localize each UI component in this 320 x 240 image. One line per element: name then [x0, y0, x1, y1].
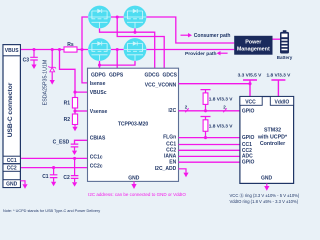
pin CC2 [3, 164, 20, 172]
svg-text:I2C_ADD: I2C_ADD [155, 166, 177, 172]
node Power Management box [234, 36, 272, 55]
wire Isense tap [82, 50, 88, 83]
wire CC2 line [20, 167, 87, 169]
ground (C2) [72, 182, 77, 186]
wire I2C bus [179, 110, 240, 112]
svg-text:VBUSc: VBUSc [90, 90, 107, 96]
wire VBUS main rail [20, 49, 100, 51]
svg-text:CBIAS: CBIAS [90, 136, 106, 142]
wire IANA to ADC [179, 155, 240, 157]
capacitor C1 [42, 168, 57, 182]
pin VddIO (STM32) [270, 97, 293, 106]
svg-text:TCPP03-M20: TCPP03-M20 [118, 121, 149, 127]
transistor Q2 (consumer FET right) [124, 6, 147, 29]
wire GND stub (STM32) [266, 183, 268, 186]
svg-text:GPIO: GPIO [242, 108, 255, 114]
svg-text:CC1c: CC1c [90, 154, 103, 160]
wire VBUSc sense path [60, 50, 88, 93]
svg-text:1.8 V/3.3 V: 1.8 V/3.3 V [209, 97, 234, 103]
svg-text:GND: GND [6, 182, 18, 188]
wire PM to battery [273, 38, 281, 40]
power rail 3.3V/5.5V [238, 73, 263, 97]
transistor Q1 (consumer FET left) [88, 6, 111, 29]
svg-text:Management: Management [237, 46, 270, 52]
svg-text:Isense: Isense [90, 81, 106, 87]
svg-text:GND: GND [261, 176, 273, 182]
svg-text:1.8 V/3.3 V: 1.8 V/3.3 V [209, 124, 234, 130]
pin VCC (STM32) [240, 97, 262, 106]
capacitor C_ESD [53, 140, 79, 151]
node dot I2C pullup [204, 109, 207, 112]
ground (TCPP03 GND) [131, 184, 136, 189]
svg-text:Rs: Rs [67, 42, 74, 48]
svg-text:C2: C2 [63, 175, 70, 181]
capacitor C3 [23, 50, 38, 65]
node Provider path annotation [185, 51, 228, 57]
svg-text:Vsense: Vsense [90, 109, 108, 115]
op-amp U2 STM32 box [240, 97, 294, 184]
svg-text:I2C address: can be connected: I2C address: can be connected to GND or … [88, 192, 186, 197]
svg-text:CC2c: CC2c [90, 164, 103, 170]
wire bottom row interconnect [105, 49, 130, 51]
svg-text:Power: Power [245, 40, 262, 46]
svg-text:Battery: Battery [277, 55, 293, 60]
wire provider source to GDPS [116, 50, 118, 69]
pin VBUS [3, 45, 20, 56]
ESD diode ESDA25P35-1U1M [42, 50, 56, 106]
svg-text:ESDA25P35-1U1M: ESDA25P35-1U1M [42, 60, 48, 106]
resistor Rs [64, 42, 77, 52]
resistor pull-up FLGn [201, 117, 234, 138]
svg-text:GPIO: GPIO [242, 160, 255, 166]
svg-text:R1: R1 [64, 101, 71, 107]
node bus width marker left [185, 105, 189, 113]
wire riser to consumer FET row [82, 17, 100, 50]
svg-text:VBUS: VBUS [5, 48, 20, 54]
wire provider output path [140, 49, 234, 51]
svg-text:STM32: STM32 [264, 128, 281, 134]
svg-text:EN: EN [169, 159, 176, 165]
node bus width marker right [223, 105, 226, 113]
svg-text:VddIO ring (1.8 V ±5% - 3.3 V: VddIO ring (1.8 V ±5% - 3.3 V ±10%) [230, 199, 299, 204]
USB-C connector [3, 45, 20, 188]
svg-text:FLGn: FLGn [163, 135, 176, 141]
wire Vsense [75, 110, 88, 112]
ground (I2C_ADD) [183, 173, 188, 178]
node Battery icon [277, 30, 293, 60]
wire CC1 line [20, 157, 87, 159]
ground (USB-C GND) [22, 184, 27, 189]
svg-text:Provider path: Provider path [185, 51, 217, 57]
svg-text:Note: * UCPD stands for USB Ty: Note: * UCPD stands for USB Type-C and P… [3, 209, 100, 213]
svg-text:C1: C1 [42, 174, 49, 180]
wire top row interconnect [105, 16, 130, 18]
svg-text:VCC Ⓢ ring (3.3 V ±10% - 5 V ±: VCC Ⓢ ring (3.3 V ±10% - 5 V ±10%) [230, 192, 300, 199]
svg-text:I2C: I2C [168, 108, 176, 114]
svg-text:VCC: VCC [245, 99, 256, 105]
node dot VCC rail [248, 82, 251, 85]
resistor R1 [64, 92, 78, 111]
svg-text:USB-C connector: USB-C connector [7, 82, 14, 137]
svg-text:CC1: CC1 [7, 158, 17, 164]
wire consumer source to GDCS [117, 17, 164, 68]
svg-text:CC2: CC2 [7, 166, 17, 172]
svg-text:GND: GND [128, 176, 140, 182]
wire CC1 to STM32 [179, 144, 240, 146]
svg-text:C3: C3 [23, 57, 30, 63]
wire GND stub (TCPP03) [133, 181, 135, 184]
wire consumer output path [140, 17, 234, 43]
op-amp U1 TCPP03-M20 box [88, 68, 179, 181]
ground (ESD diode) [50, 80, 55, 85]
svg-text:C_ESD: C_ESD [53, 140, 70, 146]
wire GND stub (USB-C) [20, 181, 25, 184]
svg-text:Consumer path: Consumer path [194, 33, 231, 39]
svg-text:with UCPD*: with UCPD* [257, 134, 288, 140]
node Consumer path annotation [181, 33, 231, 39]
wire consumer gates to GDCG [100, 26, 155, 68]
pin CC1 [3, 156, 20, 164]
svg-text:GPIO: GPIO [242, 135, 255, 141]
pin GND (USB-C) [3, 180, 20, 188]
node junction dots left section [32, 15, 136, 169]
power rail 1.8V/3.3V [267, 73, 292, 97]
wire CBIAS [75, 140, 88, 143]
wire EN to GPIO [179, 161, 240, 163]
svg-text:VddIO: VddIO [275, 99, 290, 105]
transistor Q3 (provider FET left) [88, 38, 111, 61]
ground (R2) [72, 127, 77, 131]
svg-text:GDCG: GDCG [145, 73, 160, 79]
capacitor C2 [63, 158, 78, 182]
wire I2C_ADD stub [179, 169, 187, 173]
wire provider gates to GDPG [100, 58, 136, 68]
svg-text:GDCS: GDCS [163, 73, 178, 79]
svg-text:Controller: Controller [260, 141, 285, 147]
transistor Q4 (provider FET right) [124, 38, 147, 61]
svg-text:1.8 V/3.3 V: 1.8 V/3.3 V [267, 73, 292, 79]
wire CC2 to STM32 [179, 149, 240, 151]
svg-text:3.3 V/5.5 V: 3.3 V/5.5 V [238, 73, 263, 79]
svg-text:VCC_VCONN: VCC_VCONN [145, 83, 177, 89]
ground (C_ESD) [72, 151, 77, 155]
wire VCC_VCONN to VCC rail [179, 83, 251, 85]
ground (C1) [51, 182, 56, 186]
svg-text:R2: R2 [64, 117, 71, 123]
ground (STM32 GND) [264, 186, 269, 191]
svg-text:GDPG: GDPG [91, 73, 106, 79]
resistor R2 [64, 111, 78, 127]
wire FLGn [179, 137, 240, 139]
svg-text:GDPS: GDPS [109, 73, 124, 79]
resistor pull-up I2C [201, 90, 234, 111]
ground (C3) [31, 65, 36, 70]
node dot FLGn pullup [204, 136, 207, 139]
